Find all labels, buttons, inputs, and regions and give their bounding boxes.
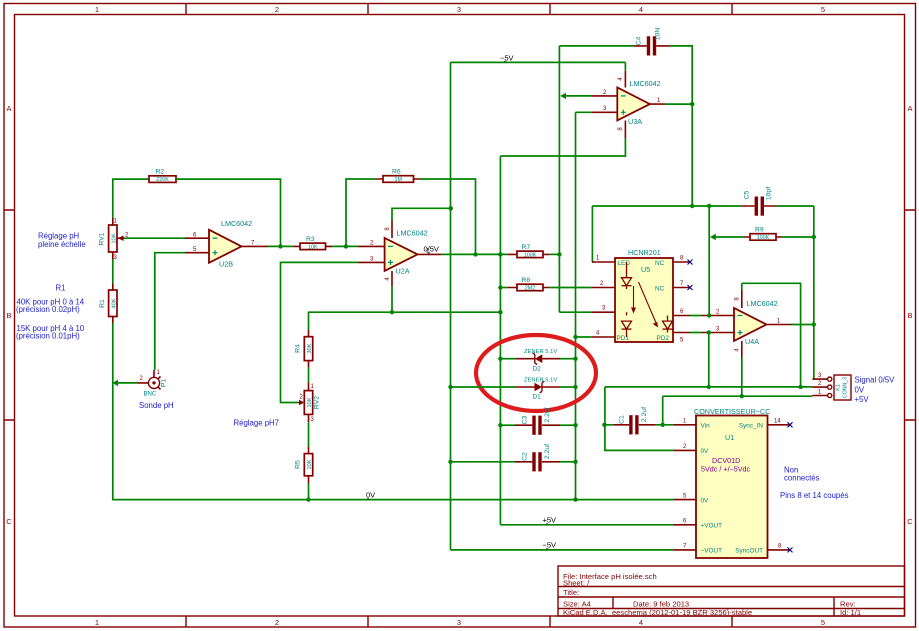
wire R2 row left [113,179,149,218]
wire U3A in- from vertical [563,95,592,97]
svg-text:LMC6042: LMC6042 [747,299,778,308]
wire R9 row from vertical [712,236,744,238]
svg-text:HCNR201: HCNR201 [628,248,661,257]
junction pin8 net/0V row [798,385,802,389]
svg-text:4: 4 [639,5,643,14]
svg-text:C: C [907,517,913,526]
junction D2/+5Vvert [498,357,502,361]
svg-text:1: 1 [95,618,99,627]
junction out/+5Vvert [498,252,502,256]
junction R5/0V [306,497,310,501]
wire U4A pin4 down to +5V row [741,358,743,397]
wire U2A pin4 row to R4 [309,312,501,330]
svg-text:R7: R7 [522,244,531,251]
junction C1/+5V out vertical [661,423,665,427]
wire U4A pin8 to K1 pin2 net [742,283,801,387]
svg-text:+5V: +5V [543,516,557,525]
svg-text:Vin: Vin [701,423,711,430]
svg-text:220K: 220K [156,177,169,183]
svg-text:ZENER 5.1V: ZENER 5.1V [524,378,557,384]
svg-text:14: 14 [774,419,781,425]
svg-text:+VOUT: +VOUT [701,523,723,530]
op-amp U3A [592,71,665,138]
svg-text:U1: U1 [725,433,734,442]
junction row/+5Vvert [498,310,502,314]
wire R8 row left [500,287,508,289]
svg-text:0V: 0V [701,497,710,504]
wire U3A in+ vertical [576,112,593,499]
resistor R9 [744,227,782,242]
wire RV1 pin3 to R1 [112,259,114,284]
svg-text:2.2uf: 2.2uf [544,444,551,459]
svg-text:R6: R6 [392,169,401,176]
junction C2/iso vertical [573,460,577,464]
light arrow LED to PD2 [639,282,657,324]
svg-text:D1: D1 [533,394,542,401]
svg-text:C3: C3 [522,415,529,424]
svg-text:A: A [6,104,11,113]
svg-text:C1: C1 [619,415,626,424]
wire +5V iso vertical [499,156,501,525]
capacitor C3 [515,407,560,434]
svg-text:D2: D2 [533,366,542,373]
svg-text:LED: LED [618,260,631,267]
svg-text:R4: R4 [295,344,302,353]
wire U5 pin1 from out row [591,206,593,262]
svg-text:10pf: 10pf [766,187,773,200]
wire RV1 wiper to U2B in- [124,237,185,239]
wire -5V top row [451,61,626,63]
wire 0V corner down to U1 pin2 [605,387,674,451]
arrow R9 left end [710,234,716,240]
svg-text:−5V: −5V [500,54,514,63]
svg-text:2.2uf: 2.2uf [544,407,551,422]
no-connect X U1 pin14 [788,422,793,427]
note Signal 0/5V 0V +5V [855,376,896,405]
svg-text:CONN_3: CONN_3 [843,377,849,398]
svg-text:Id: 1/1: Id: 1/1 [840,608,861,617]
svg-text:PD2: PD2 [657,335,670,342]
svg-text:NC: NC [655,260,665,267]
wire U5 pin4 row from iso vertical [576,336,592,338]
svg-text:2M2: 2M2 [525,285,536,291]
wire U4A in- vertical [708,206,710,316]
capacitor C4 [633,28,669,56]
arrow U3A in- wire end [560,93,566,99]
svg-text:−VOUT: −VOUT [701,548,723,555]
wire U3A in- net vertical [558,46,560,312]
svg-text:CONVERTISSEUR−CC: CONVERTISSEUR−CC [694,407,770,416]
svg-text:3: 3 [457,618,461,627]
svg-text:A: A [907,104,912,113]
op-amp U4A [702,290,792,358]
svg-text:10K: 10K [307,397,313,407]
capacitor C5 [742,187,777,216]
junction in+ vert/0V row [707,385,711,389]
svg-text:U2A: U2A [396,267,410,276]
junction pin4/+5V row [740,394,744,398]
connector K1 [812,373,851,400]
junction out/right vertical [812,322,816,326]
wire C3 row right [560,424,576,426]
svg-text:R9: R9 [755,227,764,234]
resistor R1 [99,284,117,324]
svg-text:30K: 30K [307,343,313,353]
no-connect X U5 pin7 [688,285,693,290]
svg-text:(précision 0.01pH): (précision 0.01pH) [16,332,80,341]
svg-text:C: C [6,517,12,526]
svg-text:R5: R5 [295,460,302,469]
wire 0V row to K1 pin2 [605,386,813,388]
svg-text:BNC: BNC [144,392,157,398]
junction out row/C4 vertical [690,204,694,208]
junction in+/0V vertical [707,330,711,334]
svg-text:Sonde pH: Sonde pH [139,401,174,410]
svg-text:RV2: RV2 [314,396,321,409]
wire -5V long vertical [450,62,452,550]
svg-text:0V: 0V [701,448,710,455]
wire C4 right to out vertical [670,46,693,206]
wire R5 to 0V row [308,483,310,500]
junction in-/vertical [707,313,711,317]
label 0V [366,491,375,500]
svg-text:B: B [907,311,912,320]
svg-text:NC: NC [655,286,665,293]
svg-text:Title:: Title: [563,588,579,597]
arrow P1 wire end [112,380,118,386]
LED diode inside U5 [626,262,628,289]
svg-text:P1: P1 [161,379,168,388]
potentiometer RV2 [299,382,321,423]
svg-text:1: 1 [95,5,99,14]
wire D1 row right [560,386,576,388]
svg-text:Pins 8 et 14 coupés: Pins 8 et 14 coupés [780,491,849,500]
wire D1 row left [451,386,517,388]
op-amp U2A [359,221,442,287]
converter U1 DCV01D [674,407,790,558]
svg-text:U2B: U2B [219,260,233,269]
svg-text:2: 2 [275,5,279,14]
border column numbers top [95,5,825,14]
wire P1 pin2 to left vertical [114,382,137,384]
junction R7/vertical [557,252,561,256]
svg-text:RV1: RV1 [99,232,106,245]
junction pin4/iso vertical [573,335,577,339]
svg-text:−5V: −5V [543,541,557,550]
svg-text:Sheet: /: Sheet: / [563,579,590,588]
junction C3/+5Vvert [498,423,502,427]
note R1 40K/15K precision [16,284,85,341]
capacitor C1 [614,407,655,435]
op-amp U2B [185,219,268,269]
wire U2A pin8 to -5V vertical [392,208,451,220]
junction R3/R6 vertical [344,244,348,248]
junction R9/right vertical [812,235,816,239]
border column ticks top [186,4,732,15]
svg-text:pleine échelle: pleine échelle [38,240,86,249]
svg-text:LMC6042: LMC6042 [397,229,428,238]
svg-text:ZENER 5.1V: ZENER 5.1V [524,349,557,355]
label 0/5V [424,245,439,255]
svg-text:0/5V: 0/5V [424,245,439,254]
junction D1/-5V vertical [448,385,452,389]
wire U5 pin5 to U4A in+ [690,332,702,334]
no-connect X U1 pin8 [788,547,793,552]
junction U2B out [278,244,282,248]
no-connect X U5 pin8 [688,260,693,265]
svg-text:K1: K1 [836,384,842,391]
note Non connectes [780,466,849,501]
wire C3 row left [500,424,515,426]
wire C1 row left [604,424,614,426]
wire +5V row to K1 pin1 [663,395,813,397]
border column ticks bottom [186,616,732,627]
svg-text:(précision 0.02pH): (précision 0.02pH) [16,305,80,314]
svg-text:1M: 1M [395,177,403,183]
wire K1 pin3 row [814,378,815,380]
optocoupler U5 HCNR201 [591,248,690,344]
svg-text:U3A: U3A [628,117,642,126]
wire R6 right vertical to U2A out [421,179,476,254]
wire U5 pin6 to U4A in- [690,315,702,317]
wire D2 row left [500,358,516,360]
svg-text:connectés: connectés [784,474,820,483]
zener diode D1 [516,378,560,401]
label -5V bottom [543,541,557,550]
svg-text:R8: R8 [522,277,531,284]
svg-text:R3: R3 [306,236,315,243]
svg-text:0V: 0V [855,386,865,395]
border column numbers bottom [95,618,825,627]
wire R2 right to U2B out [176,179,281,246]
junction pin4 row [390,310,394,314]
svg-text:U4A: U4A [745,337,759,346]
junction pin8 rail [449,206,453,210]
potentiometer RV1 [99,218,130,261]
svg-text:Réglage pH7: Réglage pH7 [234,419,280,428]
photodiode PD2 inside U5 [667,316,669,333]
label +5V bottom [543,516,557,525]
wire U2A in+ to RV2 wiper [281,262,359,402]
svg-text:R1: R1 [99,299,106,308]
junction D1/iso vertical [573,385,577,389]
title block text [563,572,861,617]
svg-text:10K: 10K [111,233,117,243]
wire R6 feedback left vertical [346,179,376,246]
wire U2B in+ to P1 [155,253,185,370]
svg-text:2.2uf: 2.2uf [641,407,648,422]
junction out row/U4A in- vertical [707,204,711,208]
svg-text:5: 5 [821,5,825,14]
resistor R8 [508,277,549,291]
svg-text:10K: 10K [308,244,318,250]
wire +5V out vertical [662,396,664,425]
junction R8/+5Vvert [498,285,502,289]
photodiode PD1 inside U5 [626,312,628,337]
label -5V top [500,54,514,63]
note Reglage pH pleine echelle [38,232,86,250]
svg-text:C5: C5 [744,190,751,199]
wire C1 right to U1 pin1 [655,424,674,426]
svg-text:R1: R1 [56,284,66,293]
junction R6/out [473,252,477,256]
resistor R3 [294,236,332,250]
annotation red ellipse [476,335,596,411]
svg-text:0V: 0V [366,491,375,500]
svg-text:40K: 40K [111,298,117,308]
resistor R6 [376,169,421,184]
svg-text:+5V: +5V [855,395,870,404]
svg-text:10N: 10N [655,28,662,41]
wire R9 right [782,236,814,238]
connector P1 BNC [137,370,167,398]
wire D2 row right [560,358,576,360]
wire U2A pin4 down [391,286,393,312]
svg-text:Signal 0/5V: Signal 0/5V [855,376,896,385]
junction D2/iso vertical [573,357,577,361]
wire R4 to RV2 [308,367,310,382]
svg-text:KiCad E.D.A. eeschema (2012-0: KiCad E.D.A. eeschema (2012-01-19 BZR 32… [563,608,752,617]
junction iso vertical/0V row [573,497,577,501]
wire R8 right to U5 pin2 [549,287,591,289]
svg-text:C2: C2 [522,452,529,461]
junction C1/0V vertical [602,423,606,427]
svg-text:LMC6042: LMC6042 [630,79,661,88]
svg-text:5: 5 [821,618,825,627]
wire U4A out to right vertical [792,324,814,326]
svg-text:2: 2 [275,618,279,627]
svg-text:10K: 10K [307,459,313,469]
svg-text:100K: 100K [524,252,537,258]
wire U4A in+ down to 0V row [708,333,710,387]
wire U3A out feed row [592,205,741,207]
svg-text:4: 4 [639,618,643,627]
wire C2 row right [560,461,576,463]
svg-text:U5: U5 [641,265,650,274]
border row ticks right [905,210,916,420]
wire U5 pin3 row from vertical [559,311,591,313]
svg-text:PD1: PD1 [617,335,630,342]
capacitor C2 [515,444,560,472]
junction C2/-5V vertical [448,460,452,464]
resistor R7 [508,244,549,258]
svg-text:3: 3 [457,5,461,14]
svg-text:100K: 100K [757,235,770,241]
wire U3A out [665,103,692,105]
wire R1 down to 0V row [113,323,674,500]
wire C2 row left [451,461,516,463]
svg-text:Sync_IN: Sync_IN [739,423,764,430]
wire -5V bottom row to U1 pin7 [451,549,675,551]
wire R7 right to in- vertical [549,253,559,255]
svg-text:5Vdc / +/−5Vdc: 5Vdc / +/−5Vdc [701,465,751,474]
svg-text:B: B [6,311,11,320]
wire R3 to U2A in- [332,245,359,247]
zener diode D2 [516,349,560,373]
title block frame [558,566,905,616]
junction C3/iso vertical [573,423,577,427]
wire RV2 to R5 [308,422,310,447]
wire U3A pin4 from -5V [624,62,626,70]
wire U2B out to R3 [268,245,295,247]
border row letters left [6,104,12,526]
svg-text:SyncOUT: SyncOUT [735,548,763,555]
wire +5V bottom row to U1 pin6 [500,524,674,526]
wire +5V row to U3A pin8 [500,138,625,156]
wire C5 right [777,205,814,207]
svg-text:C4: C4 [636,36,643,45]
light arrow LED to PD1 [633,286,635,310]
junction U3A out/C4 [690,102,694,106]
resistor R5 [295,447,314,483]
border row ticks left [4,210,15,420]
wire U2A out row [442,253,508,255]
svg-text:R2: R2 [156,169,165,176]
svg-text:LMC6042: LMC6042 [221,219,252,228]
resistor R2 [149,169,176,184]
wire U4A feedback right vertical [813,206,815,379]
wire C4 left row [559,45,633,47]
resistor R4 [295,330,314,367]
border row letters right [907,104,913,526]
